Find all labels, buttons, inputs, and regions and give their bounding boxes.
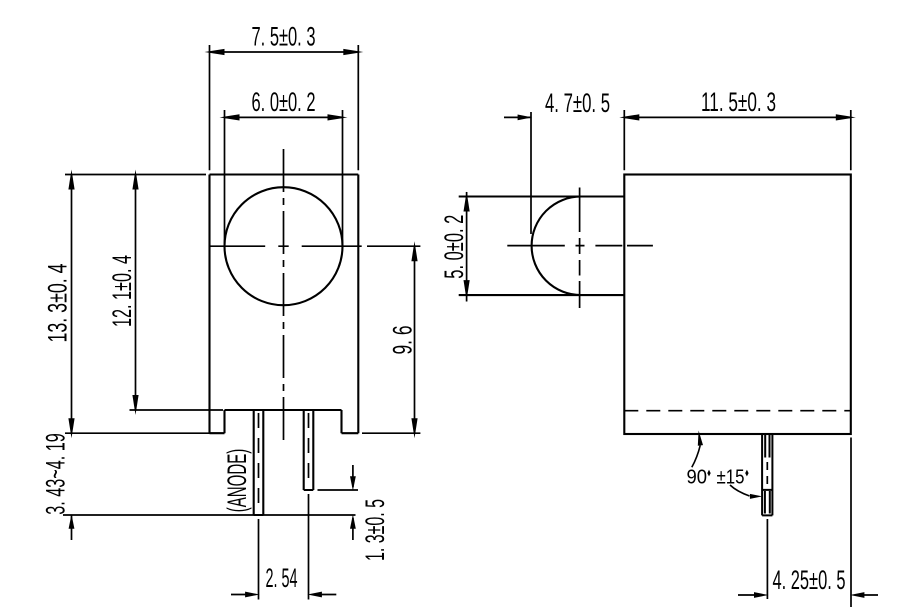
- svg-text:13. 3±0. 4: 13. 3±0. 4: [43, 264, 73, 343]
- lead dashed centerline side view: [766, 462, 768, 484]
- leader arc to housing bottom: [692, 445, 700, 467]
- dimension 3.43~4.19: [63, 515, 356, 540]
- svg-text:90: 90: [687, 467, 708, 489]
- svg-text:4. 25±0. 5: 4. 25±0. 5: [773, 565, 846, 595]
- LED dome side view: [459, 197, 625, 296]
- svg-text:(ANODE): (ANODE): [222, 449, 252, 513]
- vertical centerline left view: [283, 149, 285, 440]
- dimension 13.3±0.4: [65, 175, 225, 434]
- lead 1 dashed centerline: [258, 413, 260, 512]
- svg-text:4. 7±0. 5: 4. 7±0. 5: [545, 88, 610, 118]
- lead 1 (anode, left): [254, 410, 264, 515]
- leader arc to lead: [730, 485, 750, 496]
- body outline right view: [624, 175, 851, 435]
- dimension 4.25±0.5: [738, 438, 878, 608]
- svg-text:2. 54: 2. 54: [266, 563, 298, 593]
- svg-text:12. 1±0. 4: 12. 1±0. 4: [107, 255, 137, 327]
- dimension 9.6: [362, 246, 420, 433]
- dimension 12.1±0.4: [130, 175, 224, 411]
- svg-text:7. 5±0. 3: 7. 5±0. 3: [252, 22, 316, 52]
- lead 2 (right): [304, 410, 314, 490]
- dome vertical centerline: [579, 188, 581, 309]
- dimension 6.0±0.2: [225, 110, 343, 246]
- lead side view: [762, 434, 772, 516]
- dimension 5.0±0.2: [466, 192, 468, 302]
- svg-text:11. 5±0. 3: 11. 5±0. 3: [701, 87, 776, 117]
- housing outline left view: [210, 175, 359, 434]
- dimension 7.5±0.3: [210, 45, 359, 170]
- svg-text:3. 43~4. 19: 3. 43~4. 19: [41, 433, 71, 515]
- dimension 2.54: [231, 494, 336, 600]
- horizontal centerline through lens circle: [211, 245, 421, 247]
- svg-text:5. 0±0. 2: 5. 0±0. 2: [439, 215, 469, 279]
- dimension 4.7±0.5: [504, 112, 531, 234]
- svg-text:9. 6: 9. 6: [388, 326, 418, 355]
- dimension 11.5±0.3: [624, 110, 851, 170]
- dome horizontal centerline: [507, 245, 653, 247]
- lead 2 dashed centerline: [308, 413, 310, 487]
- svg-text:1. 3±0. 5: 1. 3±0. 5: [360, 499, 390, 561]
- svg-text:6. 0±0. 2: 6. 0±0. 2: [252, 87, 316, 117]
- dashed seating plane line: [624, 410, 851, 412]
- LED lens circle: [225, 187, 343, 305]
- dimension 1.3±0.5: [318, 465, 359, 540]
